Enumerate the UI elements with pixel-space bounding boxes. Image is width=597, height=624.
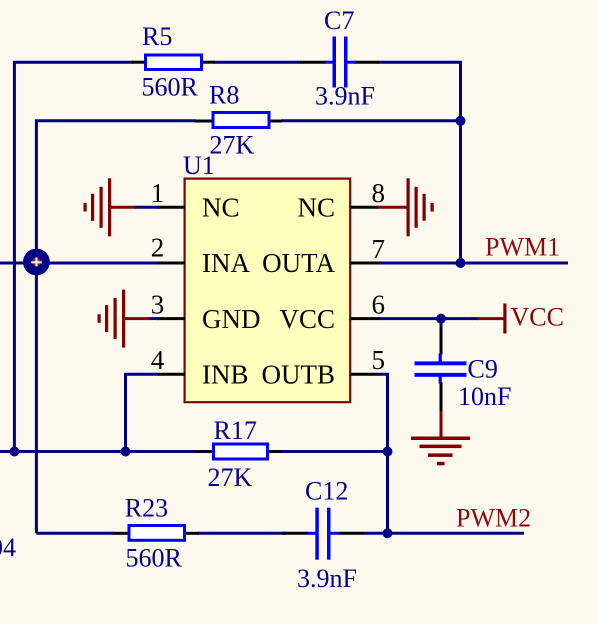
svg-text:3.9nF: 3.9nF [297, 564, 357, 593]
svg-text:OUTA: OUTA [262, 248, 335, 278]
power symbol VCC [477, 304, 507, 334]
pin 8 lead [350, 206, 379, 209]
wire: R8 row left vertical [36, 121, 196, 534]
svg-text:3.9nF: 3.9nF [315, 82, 375, 111]
svg-text:VCC: VCC [279, 304, 335, 334]
junction at PWM1 [456, 258, 466, 268]
junction big circle on INA [23, 249, 50, 276]
svg-text:5: 5 [372, 345, 386, 375]
wire: INA row y=263 [0, 262, 158, 265]
wire: pin5 down vertical x=387 [378, 374, 388, 533]
svg-text:U1: U1 [183, 151, 215, 180]
resistor R23 [113, 526, 199, 541]
pin 6 lead [350, 317, 379, 320]
junction at R8/vertical [456, 116, 466, 126]
op-amp U1 body [185, 179, 351, 403]
svg-text:3: 3 [151, 289, 165, 319]
wire: R17 right segment [280, 450, 388, 453]
resistor R8 [195, 113, 282, 128]
svg-text:6: 6 [372, 289, 386, 319]
wire: pin6 to VCC [378, 317, 478, 320]
svg-text:R5: R5 [142, 22, 172, 51]
wire: R8 right to vertical [281, 119, 461, 122]
svg-text:2: 2 [151, 233, 165, 263]
wire: R5 row left segment [14, 62, 133, 451]
ground below C9 [411, 411, 470, 465]
svg-text:C9: C9 [468, 355, 498, 384]
capacitor C12 [282, 508, 364, 560]
junction on PWM2 row [383, 528, 393, 538]
svg-text:INA: INA [202, 248, 250, 278]
pin 4 lead [158, 373, 185, 376]
svg-text:C12: C12 [305, 476, 348, 505]
junction left on R17 row [9, 447, 19, 457]
pin 3 lead [157, 317, 185, 320]
wire: R5 to C7 [214, 61, 301, 64]
junction on VCC row [436, 314, 446, 324]
ground symbol pin 1 [84, 178, 137, 236]
wire: pin3 blue stub [149, 317, 158, 320]
svg-text:4: 4 [151, 345, 165, 375]
junction right on R17 row [383, 447, 393, 457]
svg-text:10nF: 10nF [458, 382, 511, 411]
junction pin4 vertical on R17 row [121, 447, 131, 457]
wire: R23 to C12 [198, 532, 286, 535]
wire: pin1 blue stub [135, 206, 159, 209]
ground symbol pin 8 [378, 178, 434, 236]
svg-text:INB: INB [202, 359, 249, 389]
svg-text:GND: GND [202, 304, 261, 334]
svg-text:PWM2: PWM2 [456, 504, 531, 533]
svg-text:27K: 27K [210, 131, 255, 160]
wire: pin4 to lower-left junction [126, 374, 159, 451]
svg-text:R23: R23 [125, 493, 168, 522]
svg-text:1: 1 [151, 178, 165, 208]
svg-text:OUTB: OUTB [262, 359, 336, 389]
resistor R17 [195, 444, 281, 459]
svg-text:04: 04 [0, 533, 16, 562]
capacitor C9 [415, 319, 467, 412]
wire: R17 row y=450 [0, 450, 196, 453]
svg-text:8: 8 [372, 178, 386, 208]
wire: C7 to top-right corner and down to PWM1 junction [378, 62, 461, 263]
svg-text:PWM1: PWM1 [485, 233, 560, 262]
svg-text:560R: 560R [142, 73, 199, 102]
svg-text:27K: 27K [208, 463, 253, 492]
pin 2 lead [158, 262, 185, 265]
svg-text:NC: NC [202, 192, 240, 222]
svg-text:VCC: VCC [511, 303, 564, 332]
pin 5 lead [350, 373, 379, 376]
svg-text:C7: C7 [324, 6, 354, 35]
pin 7 lead [350, 262, 379, 265]
ground symbol pin 3 [98, 290, 151, 348]
svg-text:NC: NC [297, 192, 335, 222]
svg-text:R17: R17 [214, 416, 257, 445]
svg-text:560R: 560R [126, 544, 183, 573]
wire: R23 row left segment [36, 532, 114, 535]
svg-text:7: 7 [372, 234, 386, 264]
wire: pin7 to PWM1 [378, 262, 568, 265]
resistor R5 [132, 55, 215, 70]
capacitor C7 [300, 37, 379, 88]
svg-text:R8: R8 [209, 81, 239, 110]
wire: C12 to PWM2 [363, 532, 524, 535]
pin 1 lead [158, 206, 185, 209]
